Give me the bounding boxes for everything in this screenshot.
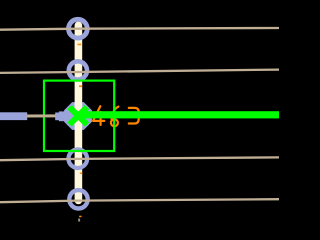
selection box (green square around pad) — [44, 81, 114, 151]
airwire: tan segment from wide track to pad P1 — [27, 114, 57, 117]
airwire L4 (tan ratsnest line through via V4) — [0, 199, 279, 202]
marker: orange tick below via V3 — [80, 173, 82, 174]
wire: highlighted green track from pad to right edge — [78, 111, 279, 118]
via V2 — [69, 61, 87, 79]
wire: wide periwinkle track segment entering from left edge — [0, 112, 27, 120]
text fragment: orange digit 3 — [129, 108, 139, 124]
via V1 (top, periwinkle ring) — [69, 19, 88, 38]
marker: orange tick below via V4 — [79, 216, 82, 218]
marker: green X selection cross on pad P1 — [72, 109, 85, 122]
text fragment: orange digit 4 (net name "463") — [93, 106, 104, 125]
airwire L1 (tan ratsnest line through via V1) — [0, 28, 279, 30]
airwire L2 (tan ratsnest line through via V2) — [0, 70, 279, 73]
marker: orange tick below via V1 — [78, 44, 82, 46]
airwire L3 (tan ratsnest line through via V3) — [0, 157, 279, 160]
text fragment: orange digit 6 — [111, 107, 119, 127]
via V3 — [69, 149, 88, 168]
marker: orange tick below via V2 — [79, 85, 82, 87]
wire: vertical cream trace (bottom-layer track from via V1 down to via V4) — [75, 25, 83, 200]
via V4 (bottom) — [69, 190, 87, 208]
wire: short periwinkle stub into pad — [55, 113, 60, 121]
pad P1 (octagonal pad at selected node) — [64, 102, 92, 130]
marker: faint trace stub below via V4 — [78, 219, 80, 222]
